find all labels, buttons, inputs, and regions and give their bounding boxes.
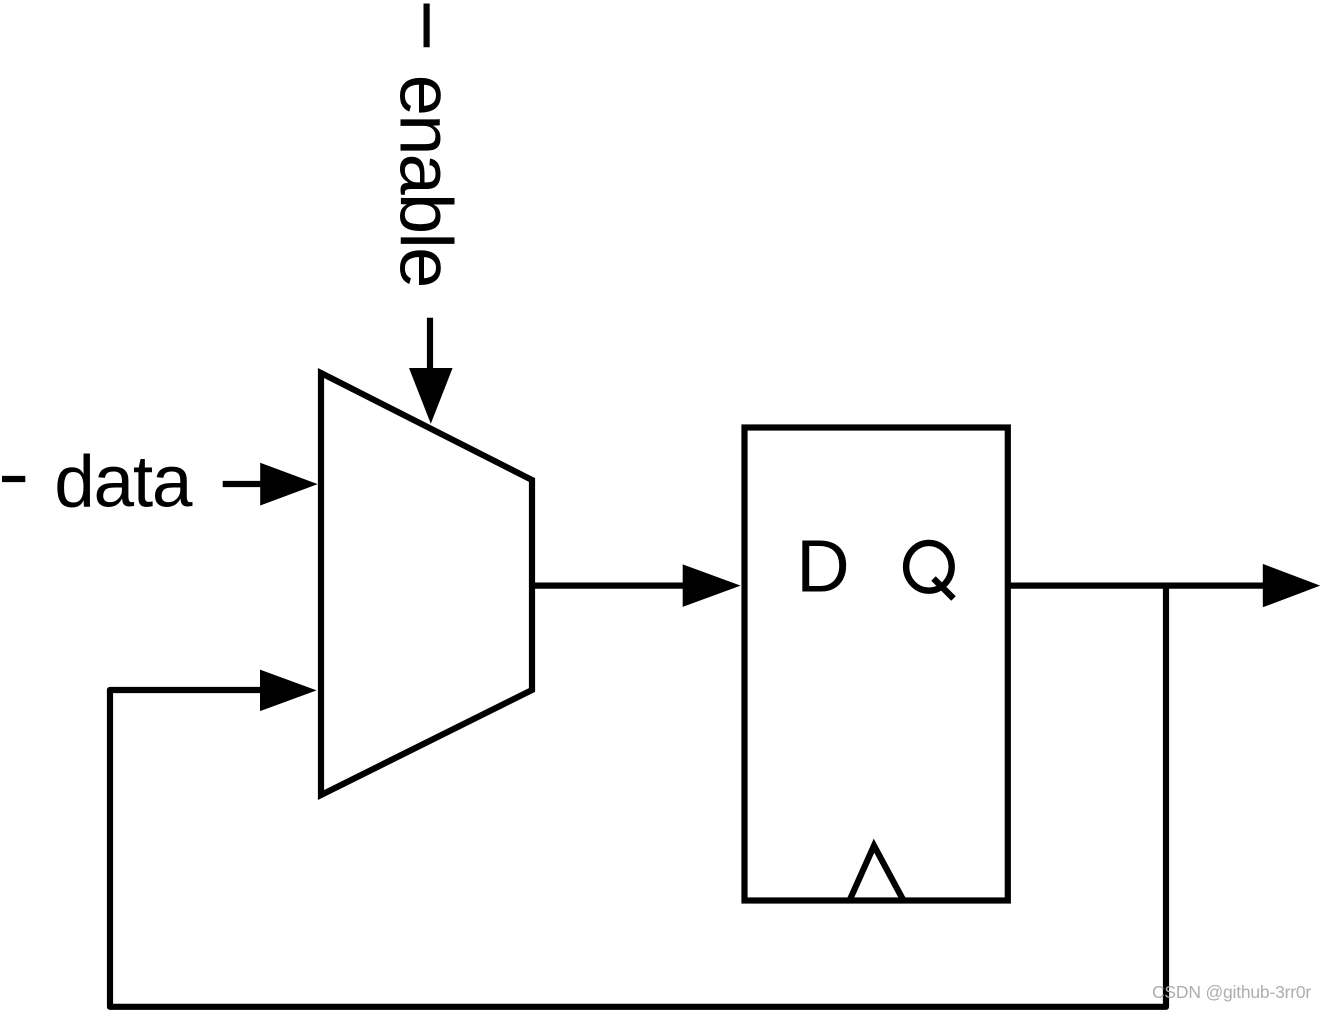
wire: data input stub (left tick) — [2, 476, 25, 482]
clock input triangle of U1 — [850, 846, 904, 901]
wire: mux output to flip-flop D input — [534, 582, 684, 588]
svg-text:data: data — [54, 442, 193, 523]
wire: Q output — [1010, 582, 1264, 588]
pin label Q — [906, 543, 953, 599]
wire: enable input stub (top tick) — [424, 4, 430, 48]
svg-text:D: D — [796, 525, 849, 608]
svg-text:enable: enable — [385, 75, 468, 288]
arrowhead: into D pin — [683, 564, 741, 607]
wire: enable into mux select pin — [427, 318, 433, 369]
svg-text:CSDN @github-3rr0r: CSDN @github-3rr0r — [1152, 982, 1311, 1002]
multiplexer M1 (2:1 mux trapezoid) — [321, 373, 532, 795]
arrowhead: output — [1263, 564, 1320, 607]
D flip-flop U1 (body) — [745, 428, 1008, 901]
wire: feedback from Q output node down, along bottom, up into mux input 1 — [110, 586, 1166, 1007]
arrowhead: enable into mux — [409, 368, 453, 424]
arrowhead: data into mux — [260, 463, 318, 506]
wire: data into mux input 0 — [223, 481, 262, 487]
arrowhead: feedback into mux — [260, 670, 317, 712]
